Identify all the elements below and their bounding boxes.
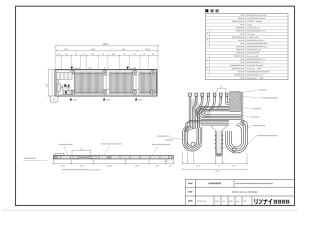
drawing A dimension row 2 [55,50,159,52]
drawing B left loop rings [183,127,202,151]
drawing A fin group lines [75,72,157,94]
spec table group col marks [207,33,209,34]
drawing B bottom overall dimension [181,168,248,170]
drawing A left compartment wall [57,72,59,95]
svg-text:91.35: 91.35 [80,165,85,167]
drawing A inner wall lines [55,70,157,97]
svg-text:0.2t: 0.2t [262,58,266,61]
drawing C bar body [53,156,173,159]
drawing B left leader label [157,135,169,136]
svg-text:78: 78 [143,54,145,56]
drawing A bottom bracket [50,96,58,102]
svg-text:¥18,000: ¥18,000 [247,21,255,23]
svg-text:30×45×1193: 30×45×1193 [247,55,259,58]
drawing A part outline [55,70,157,97]
drawing B left height dimension 82.5 [186,131,188,164]
drawing A left compartment details [57,72,73,94]
drawing B right leader lines and labels [238,90,261,149]
drawing C bar left end box [55,153,64,155]
svg-text:95: 95 [65,54,67,56]
svg-text:95: 95 [104,68,106,70]
title block company name Rinnai (pseudo CJK bold) [255,199,272,204]
svg-text:85: 85 [156,165,158,167]
drawing A socket circles [71,70,155,94]
svg-text:0.1t: 0.1t [264,45,268,48]
drawing B right wall lines [241,92,246,127]
page bottom shadow [2,209,298,211]
svg-text:96: 96 [80,149,82,151]
svg-text:4-M4: 4-M4 [73,99,77,101]
drawing B center pipe solder dots [215,135,223,155]
svg-text:JIS A 4007: JIS A 4007 [247,77,258,80]
drawing A fin tie lines [75,75,157,90]
svg-text:84.5: 84.5 [164,161,168,163]
svg-text:6-ø0.65: 6-ø0.65 [129,68,136,70]
drawing A left compartment dark cluster [64,84,69,93]
svg-text:95: 95 [102,54,104,56]
svg-text:73.5: 73.5 [232,166,236,168]
drawing A serpentine bend arcs [75,73,157,93]
drawing A gap wall lines [104,75,136,91]
spec table grid [206,14,289,80]
drawing A gap tie lines [103,75,139,90]
svg-text:4-M4: 4-M4 [138,99,142,101]
svg-text:118.5: 118.5 [135,165,140,167]
svg-text:35: 35 [218,166,220,168]
drawing B hatched header block [230,92,240,112]
svg-text:73.5: 73.5 [196,166,200,168]
drawing A weld marks top [71,67,129,70]
drawing A dimension row 3 [55,55,159,57]
drawing C far left label [24,158,36,159]
svg-text:ø10×ø7: ø10×ø7 [258,39,266,42]
drawing C bar internal details [54,156,171,159]
drawing B tube funnel shading [191,99,211,119]
svg-text:102: 102 [133,54,136,56]
svg-text:PPE: PPE [256,53,261,55]
drawing C small top dimension 96 [72,150,91,155]
svg-text:(25): (25) [88,68,91,70]
drawing A weld marks bottom [70,98,138,101]
svg-text:5.3kg: 5.3kg [247,24,252,26]
svg-text:2014.9.30: 2014.9.30 [197,201,207,203]
svg-text:4-M4: 4-M4 [106,99,110,101]
title block row 1 drawing name [209,183,221,185]
spec table title [205,9,218,12]
drawing B tube curves from stubs [189,96,229,129]
drawing B U-turn stack [196,106,241,119]
svg-text:RDM-12CA: RDM-12CA [256,14,267,17]
svg-text:30mm: 30mm [256,65,262,67]
svg-text:33: 33 [169,165,171,167]
svg-text:89: 89 [152,54,154,56]
svg-text:(t=30mm): (t=30mm) [90,168,99,171]
drawing C leader labels [59,144,73,145]
svg-text:(204): (204) [145,49,150,51]
svg-text:55: 55 [75,54,77,56]
drawing B bottom dimensions [181,151,248,164]
svg-text:0.1t: 0.1t [260,61,264,64]
svg-text:102: 102 [91,54,94,56]
drawing B lower bundle with left u-turns [186,120,230,131]
drawing A dimension row 1 (overall 1219) [55,45,160,47]
drawing A circle callouts [88,68,135,70]
title block row 1 product name [235,183,272,184]
svg-text:1219×232×30: 1219×232×30 [247,26,260,29]
svg-text:RDM-12CA-SK0821: RDM-12CA-SK0821 [232,190,258,194]
svg-text:6-ø0.65: 6-ø0.65 [74,68,81,70]
svg-text:16.35: 16.35 [60,165,65,167]
svg-text:102: 102 [112,54,115,56]
drawing A inner left dimension line [51,69,53,97]
drawing B pipe stubs with caps [189,93,228,96]
svg-text:1219: 1219 [102,43,108,46]
svg-text:45: 45 [58,54,60,56]
svg-text:0.3L/min: 0.3L/min [247,68,255,70]
title block row 3 cells [197,200,247,203]
spec table text rows [240,15,244,16]
drawing frame border [16,6,295,205]
drawing A left height dimension 232 [47,68,55,97]
drawing C bottom dimension row [52,160,174,165]
drawing B top dimension 35 [217,88,226,92]
drawing B center pipe [215,130,222,156]
svg-text:1.2L/min: 1.2L/min [247,34,255,36]
drawing B right loop rings [226,120,248,153]
drawing C caption text [62,169,88,170]
svg-text:160.65: 160.65 [106,165,112,167]
drawing B left loop connector curves [183,126,194,133]
svg-text:0.1MPa: 0.1MPa [247,37,255,39]
drawing A extension lines [56,45,158,70]
title block row labels [188,183,192,184]
title block grid [185,179,294,205]
svg-text:(147): (147) [215,171,220,173]
svg-text:55: 55 [83,54,85,56]
svg-text:mm: mm [236,201,240,203]
svg-text:95: 95 [123,54,125,56]
